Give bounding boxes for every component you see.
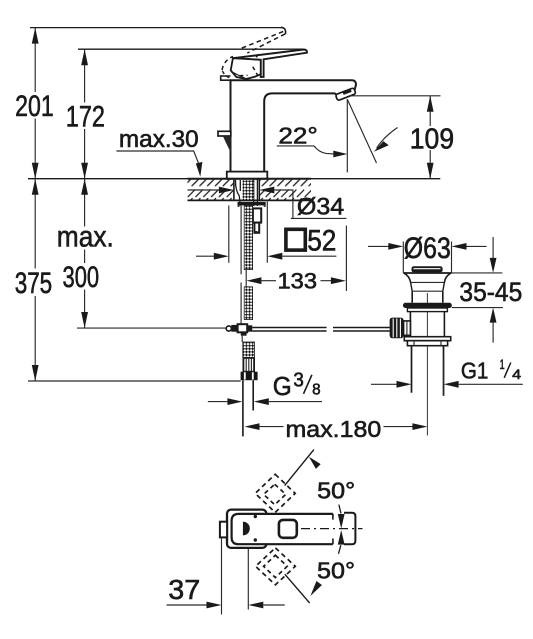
dimension 35-45 [452, 237, 503, 343]
drain upper tube [412, 291, 443, 303]
second hose crimp stub [253, 208, 261, 233]
svg-text:52: 52 [307, 225, 336, 258]
top view screw dots [254, 515, 257, 542]
svg-text:375: 375 [15, 267, 53, 300]
label G1 1/4 [461, 356, 521, 384]
drain rod knob knurled [390, 318, 404, 339]
svg-text:max.: max. [57, 221, 114, 254]
drain tailpipe [412, 346, 444, 396]
lower dashed diamond outer [256, 548, 296, 585]
threaded shank through counter [234, 180, 259, 207]
G3/8 tube lines [243, 380, 253, 436]
drain lock nut [407, 341, 447, 346]
dimension max.180 [245, 423, 428, 430]
svg-text:50°: 50° [317, 477, 355, 503]
pop-up knob tab on left of body [218, 131, 231, 152]
dimension G3/8 arrows [208, 398, 322, 405]
body top cap left block [221, 76, 231, 80]
svg-text:4: 4 [512, 366, 521, 382]
upper dashed diamond inner [264, 484, 286, 504]
label 50deg lower [317, 557, 355, 583]
svg-text:G: G [273, 371, 292, 401]
top view body square [227, 510, 266, 548]
22 degree slanted stream line [347, 99, 376, 163]
22 degree vertical reference line [346, 99, 348, 172]
dimension 133 [246, 226, 346, 292]
drain body [410, 312, 444, 337]
dimension line 172/max300 [81, 49, 88, 328]
braided flex hose lower segment [244, 287, 252, 320]
drain centerline [426, 293, 428, 436]
label 50deg upper [317, 477, 355, 503]
50deg upper ray and arrows [285, 450, 345, 529]
drain washer band [407, 308, 447, 312]
ref line 172 (lever rest height) [78, 48, 304, 50]
dimension line 201/375 [32, 28, 39, 381]
hose inside shank [243, 180, 254, 200]
countertop cross-section [188, 179, 312, 201]
svg-text:Ø34: Ø34 [297, 194, 344, 221]
label max.30 with underline and leader [116, 126, 202, 177]
drain trumpet sides [404, 273, 451, 291]
top view rear protrusion [220, 522, 227, 538]
svg-text:133: 133 [278, 269, 318, 294]
top view lever bar [232, 514, 333, 544]
spout aerator tilted [335, 88, 356, 101]
G3/8 nut [241, 372, 258, 381]
hose segment to G3/8 [243, 342, 255, 358]
dimension square52 arrows [196, 253, 336, 260]
label 201 [13, 90, 56, 123]
braided flex hose upper segment [244, 206, 252, 270]
top view spout end cap [344, 513, 355, 545]
drain black seal ring [403, 303, 452, 308]
svg-text:109: 109 [410, 123, 454, 155]
label O34 with underline [291, 194, 347, 221]
svg-text:35-45: 35-45 [459, 277, 522, 307]
horizontal pop-up rod [252, 328, 389, 332]
50deg lower ray and arrows [285, 530, 345, 603]
lower dashed diamond inner [264, 555, 288, 577]
label G3/8 [273, 370, 321, 401]
dimension 37 [167, 538, 285, 615]
lever raised position dashed outline [222, 27, 286, 78]
label 172 [64, 100, 108, 133]
mounting nut below counter [238, 202, 266, 207]
svg-text:8: 8 [312, 382, 321, 399]
drain plug cap [412, 266, 443, 272]
curved leader arrow pointing at stream [374, 128, 398, 152]
bottom ref line 375 [28, 380, 241, 382]
counter top surface line [28, 178, 440, 180]
svg-text:max.30: max.30 [119, 126, 199, 153]
label O63 [404, 232, 451, 265]
G3/8 hose end fitting [243, 358, 254, 372]
label 133 [278, 269, 318, 294]
svg-text:G1: G1 [461, 358, 489, 384]
top view D mark [243, 522, 250, 536]
ref line top (201 max height, raised lever) [30, 27, 282, 29]
label 109 [410, 123, 454, 155]
lever handle solid: blade and neck [233, 50, 307, 77]
svg-text:Ø63: Ø63 [404, 232, 451, 265]
drain lower flange [404, 337, 450, 341]
upper dashed diamond outer [255, 474, 295, 512]
109 spout ref line [349, 95, 440, 97]
top view centerline dash-dot [301, 528, 363, 530]
lever handle solid: pivot base [231, 58, 261, 79]
faucet body outline [231, 80, 357, 172]
svg-text:172: 172 [66, 100, 105, 133]
label 37 [168, 574, 200, 605]
svg-text:300: 300 [63, 261, 100, 294]
drain side port collar [404, 321, 411, 335]
dimension O63 [368, 242, 487, 273]
label square 52 [286, 225, 337, 258]
dimension square52 extension lines [229, 202, 267, 263]
label 22deg with underline and leader arrow [277, 123, 348, 158]
svg-text:3: 3 [293, 370, 304, 392]
base plinth [227, 172, 267, 179]
svg-text:201: 201 [15, 90, 54, 123]
label max.180 [286, 416, 382, 442]
svg-text:1: 1 [500, 356, 505, 372]
svg-text:22°: 22° [278, 123, 317, 149]
hose inner line at break [245, 270, 247, 287]
pull rod below counter [240, 206, 242, 324]
svg-text:max.180: max.180 [286, 416, 382, 442]
dimension G1 1/4 [371, 356, 523, 396]
svg-text:50°: 50° [317, 557, 355, 583]
dimension O34 hole arrows [188, 187, 293, 219]
svg-text:37: 37 [168, 574, 200, 605]
pop-up rod pivot connector [226, 324, 252, 342]
label 375 [13, 267, 55, 300]
top view lever square marker [279, 520, 297, 538]
label max. 300 [55, 221, 115, 294]
max.300 lower ref line [77, 327, 226, 329]
label 35-45 [459, 277, 522, 307]
dimension 109 vertical [427, 96, 434, 179]
drain flange top [403, 272, 451, 274]
